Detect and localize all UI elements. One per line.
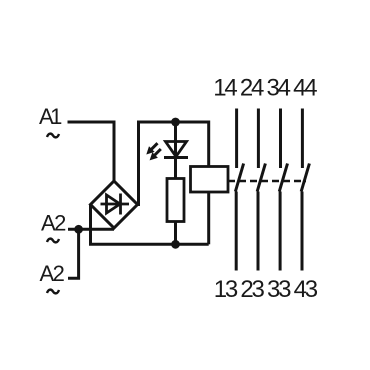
mechanical linkage dashed line <box>228 180 306 183</box>
wire A1 to bridge top <box>68 122 115 182</box>
LED cathode bar <box>164 156 188 159</box>
diode inside bridge <box>101 194 130 215</box>
wire resistor to bottom bus <box>174 222 177 245</box>
node A2 terminal label (lower) <box>40 261 65 286</box>
LED D1 triangle <box>166 142 187 157</box>
wire bridge left vertex to bottom bus <box>91 205 209 244</box>
node A2 terminal label (upper) <box>41 211 66 236</box>
contact 3 blade <box>279 164 287 192</box>
contact 3 lower terminal 33 <box>279 192 282 271</box>
svg-text:A2: A2 <box>41 211 66 236</box>
svg-text:14 24 34 44: 14 24 34 44 <box>213 75 317 102</box>
svg-text:A1: A1 <box>39 104 62 129</box>
contact 1 lower terminal 13 <box>235 192 238 271</box>
wire lower A2 up to junction <box>68 229 79 278</box>
contact 1 upper terminal 14 <box>235 109 238 169</box>
resistor R1 <box>167 179 184 222</box>
junction top bus / LED branch <box>171 118 180 127</box>
terminal label row 14 24 34 44 <box>213 75 317 102</box>
contact 3 upper terminal 34 <box>279 109 282 169</box>
AC symbol under A1 <box>47 134 59 138</box>
contact 2 lower terminal 23 <box>257 192 260 271</box>
AC symbol under lower A2 <box>47 290 59 294</box>
junction A2 <box>74 225 83 234</box>
terminal label row 13 23 33 43 <box>214 276 318 303</box>
wire A2 to bridge bottom vertex <box>68 228 114 231</box>
node A1 terminal label <box>39 104 62 129</box>
LED emission arrow 1 <box>146 143 157 154</box>
junction bottom bus / resistor branch <box>171 240 180 249</box>
wire LED to resistor <box>174 156 177 179</box>
svg-text:A2: A2 <box>40 261 65 286</box>
contact 4 blade <box>301 164 309 192</box>
LED emission arrow 2 <box>150 149 161 160</box>
contact 4 lower terminal 43 <box>301 192 304 271</box>
bridge rectifier BR1 body <box>91 181 138 228</box>
wire coil bottom to bottom bus <box>207 192 210 244</box>
contact 1 blade <box>235 164 243 192</box>
wire bridge right vertex to top bus and relay coil <box>139 122 209 206</box>
relay coil K1 <box>191 167 229 193</box>
AC symbol under upper A2 <box>47 239 59 243</box>
contact 2 upper terminal 24 <box>257 109 260 169</box>
contact 4 upper terminal 44 <box>301 109 304 169</box>
svg-text:13 23 33 43: 13 23 33 43 <box>214 276 318 303</box>
wire top junction to LED <box>174 122 177 156</box>
contact 2 blade <box>257 164 265 192</box>
